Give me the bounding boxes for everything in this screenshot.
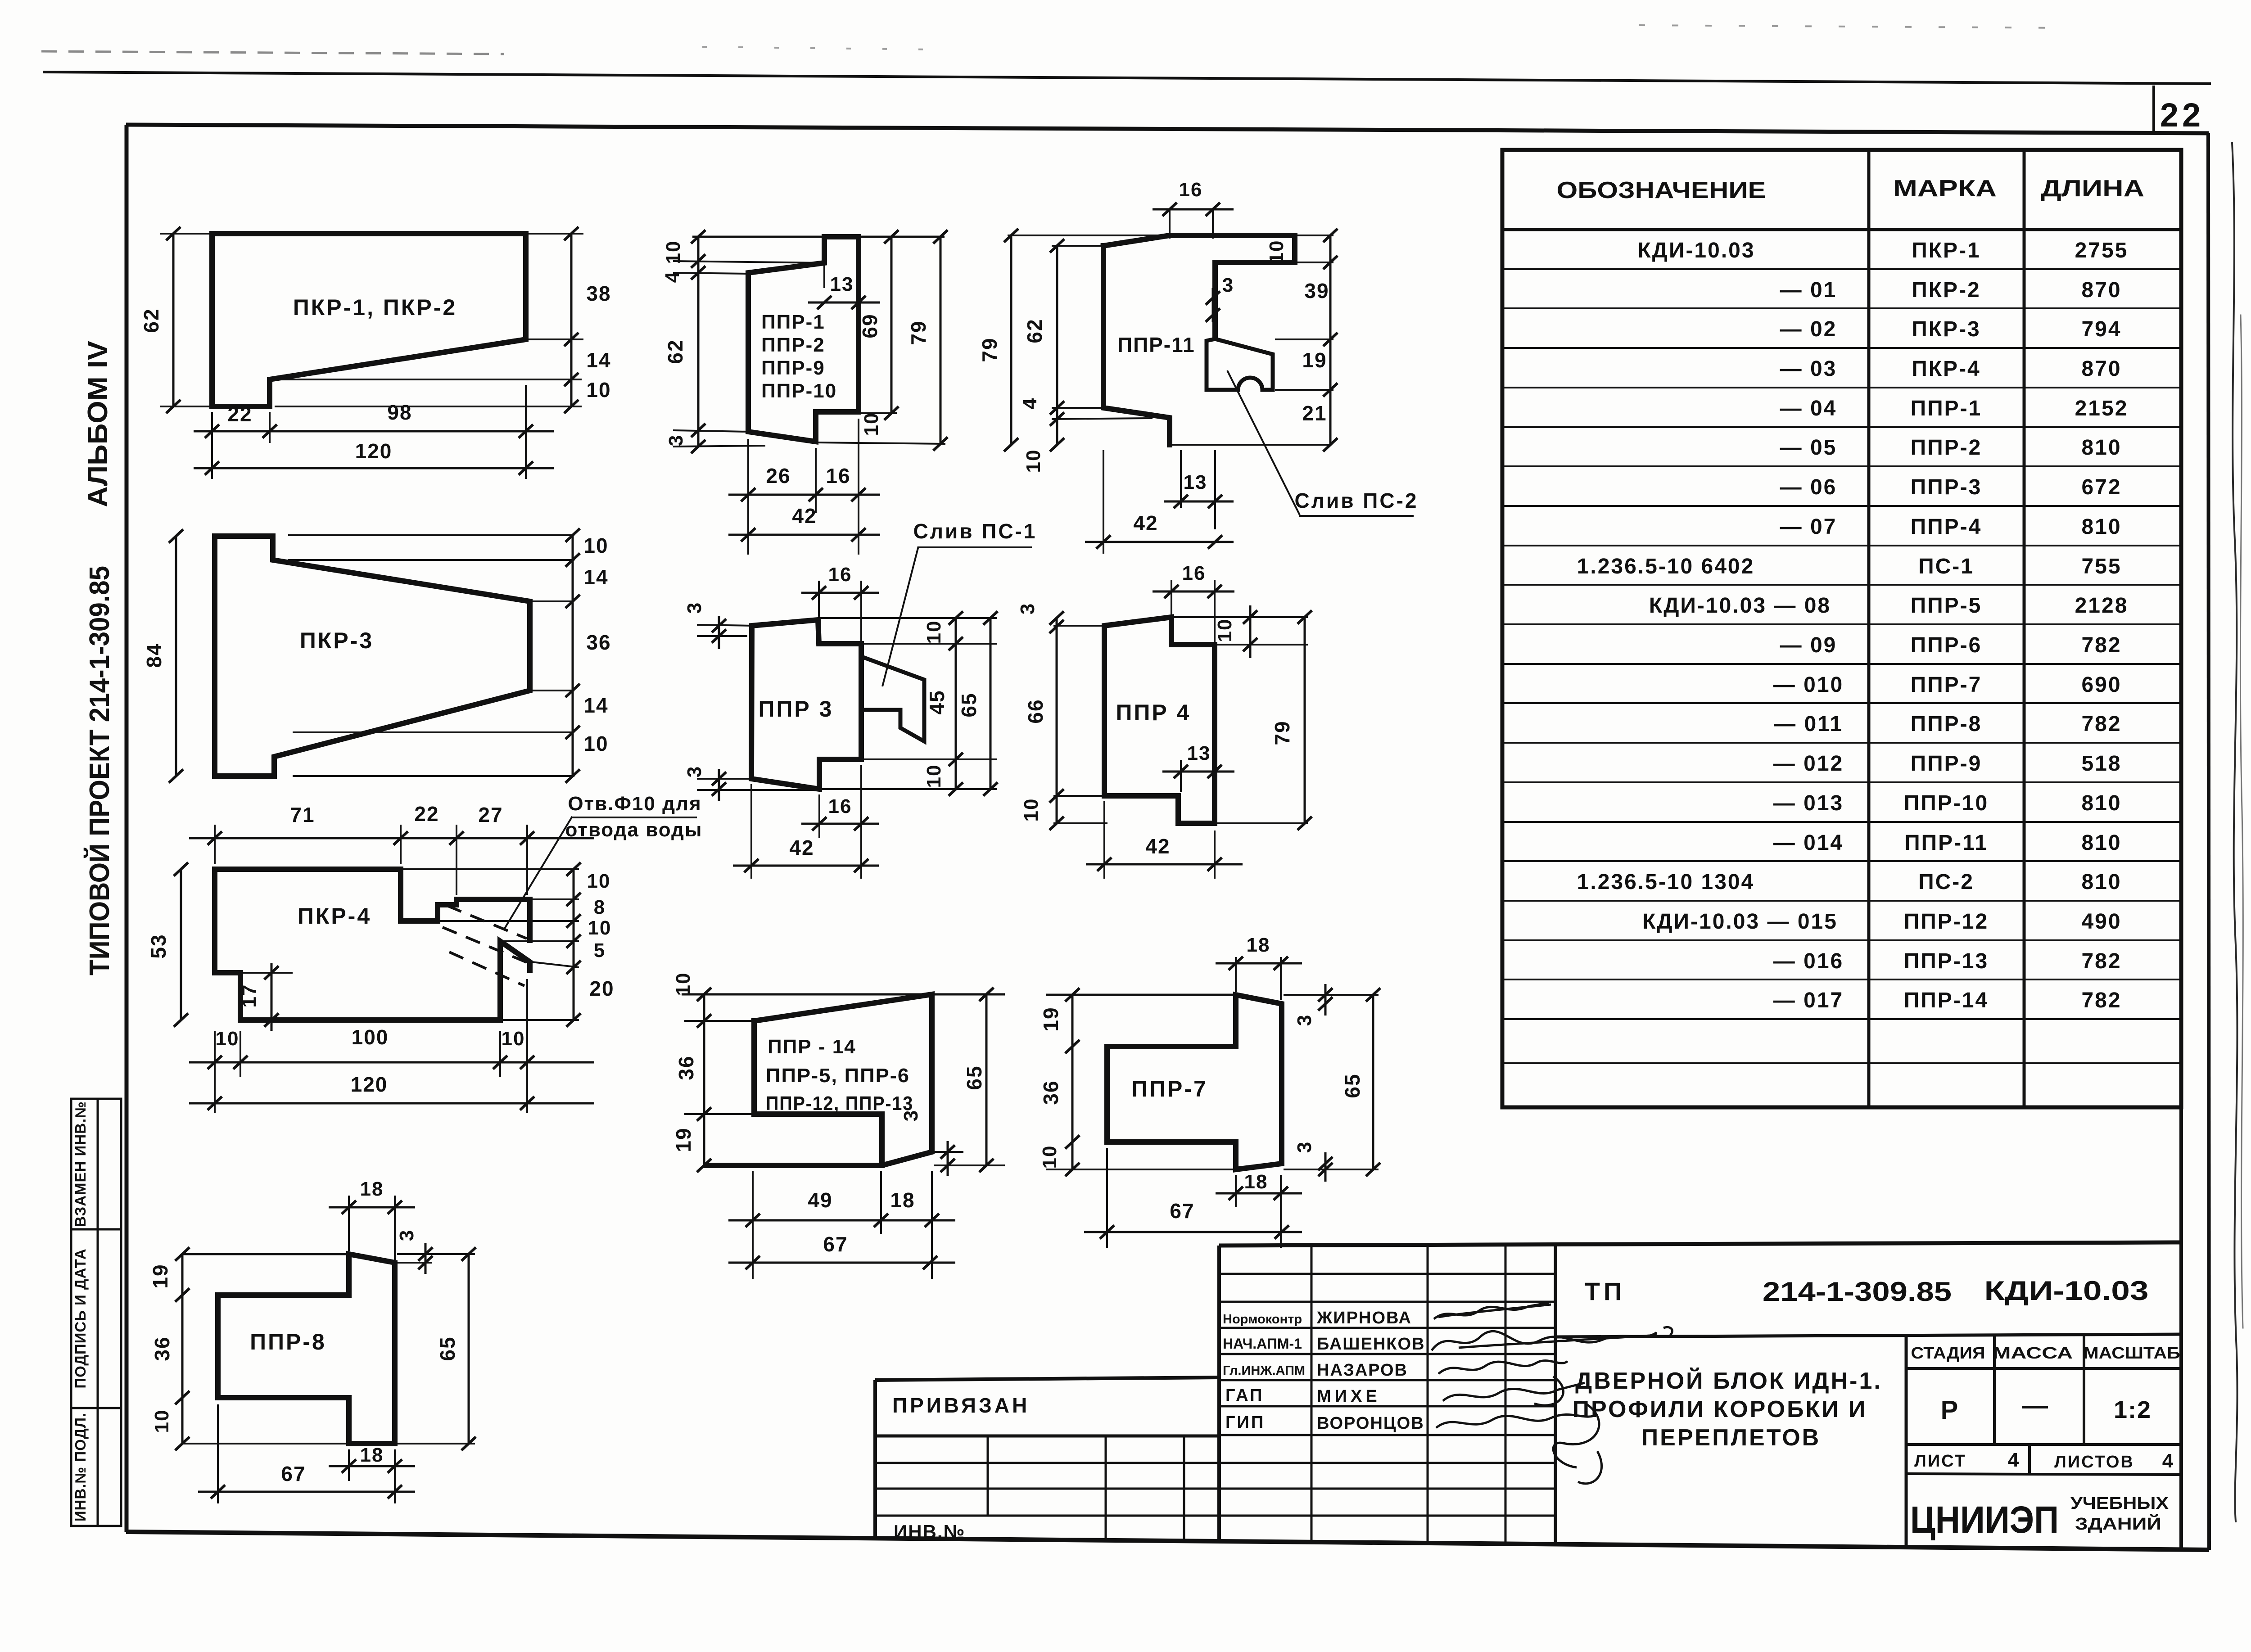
dimensions PPR-8: [348, 1196, 350, 1251]
svg-text:1:2: 1:2: [2114, 1396, 2152, 1423]
svg-text:4: 4: [2162, 1450, 2174, 1472]
svg-text:10: 10: [588, 917, 612, 939]
svg-text:13: 13: [1187, 742, 1211, 764]
svg-text:НАЧ.АПМ-1: НАЧ.АПМ-1: [1223, 1336, 1302, 1352]
svg-text:ППР-9: ППР-9: [1911, 752, 1982, 776]
svg-text:ППР-4: ППР-4: [1911, 515, 1982, 539]
svg-text:10: 10: [1022, 449, 1044, 473]
svg-text:16: 16: [826, 464, 850, 487]
svg-text:ППР-7: ППР-7: [1911, 673, 1982, 697]
svg-text:26: 26: [766, 464, 791, 487]
dimensions PPR-4: [1171, 580, 1172, 614]
svg-text:10: 10: [1214, 618, 1236, 642]
svg-text:49: 49: [808, 1188, 832, 1212]
svg-text:ПЕРЕПЛЕТОВ: ПЕРЕПЛЕТОВ: [1641, 1425, 1821, 1451]
svg-text:ВЗАМЕН ИНВ.№: ВЗАМЕН ИНВ.№: [72, 1101, 89, 1227]
svg-text:120: 120: [351, 1073, 388, 1096]
svg-text:ППР-10: ППР-10: [1904, 791, 1989, 815]
svg-text:794: 794: [2081, 317, 2121, 341]
title block: [1219, 1107, 2181, 1549]
svg-text:13: 13: [830, 273, 854, 295]
svg-text:62: 62: [140, 308, 163, 333]
svg-text:ПРИВЯЗАН: ПРИВЯЗАН: [892, 1394, 1030, 1417]
svg-text:Нормоконтр: Нормоконтр: [1223, 1312, 1302, 1327]
svg-text:ИНВ.№ ПОДЛ.: ИНВ.№ ПОДЛ.: [72, 1413, 89, 1521]
svg-text:10: 10: [1020, 798, 1042, 822]
svg-text:ТИПОВОЙ ПРОЕКТ 214-1-309.85: ТИПОВОЙ ПРОЕКТ 214-1-309.85: [84, 566, 115, 975]
svg-text:ЗДАНИЙ: ЗДАНИЙ: [2075, 1513, 2161, 1534]
svg-text:42: 42: [792, 504, 817, 528]
svg-text:870: 870: [2081, 278, 2121, 302]
svg-text:84: 84: [142, 643, 166, 668]
svg-text:67: 67: [281, 1462, 306, 1485]
svg-text:79: 79: [1270, 720, 1294, 745]
svg-text:10: 10: [923, 620, 945, 644]
svg-text:36: 36: [1039, 1080, 1062, 1105]
svg-text:214-1-309.85: 214-1-309.85: [1763, 1277, 1952, 1307]
svg-text:ПОДПИСЬ И ДАТА: ПОДПИСЬ И ДАТА: [72, 1248, 89, 1388]
svg-text:36: 36: [150, 1336, 174, 1361]
svg-text:ПКР-3: ПКР-3: [300, 628, 374, 653]
svg-text:36: 36: [674, 1055, 698, 1080]
svg-text:ППР 4: ППР 4: [1116, 700, 1191, 725]
svg-text:ПКР-3: ПКР-3: [1912, 317, 1981, 341]
dimensions PKR-1: [160, 233, 210, 235]
svg-text:10: 10: [923, 764, 945, 788]
svg-text:ОБОЗНАЧЕНИЕ: ОБОЗНАЧЕНИЕ: [1557, 177, 1766, 203]
svg-text:1.236.5-10 6402: 1.236.5-10 6402: [1577, 555, 1755, 578]
dimensions PPR-7: [1235, 957, 1237, 992]
svg-text:ППР-1: ППР-1: [761, 311, 825, 333]
svg-text:Слив ПС-1: Слив ПС-1: [913, 519, 1037, 543]
svg-text:10: 10: [860, 412, 882, 436]
svg-text:38: 38: [586, 282, 611, 305]
svg-text:10: 10: [216, 1028, 240, 1050]
svg-text:ППР-5: ППР-5: [1911, 594, 1982, 618]
svg-text:—: —: [2022, 1391, 2048, 1420]
dimensions PKR-3: [288, 534, 574, 536]
svg-text:782: 782: [2081, 949, 2121, 973]
svg-text:ПС-2: ПС-2: [1918, 870, 1974, 894]
svg-text:22: 22: [414, 802, 439, 826]
svg-text:17: 17: [238, 984, 260, 1008]
svg-text:МАСШТАБ: МАСШТАБ: [2084, 1344, 2180, 1362]
svg-text:ЦНИИЭП: ЦНИИЭП: [1910, 1499, 2059, 1541]
svg-text:19: 19: [1039, 1007, 1062, 1031]
svg-text:ППР-11: ППР-11: [1904, 831, 1988, 855]
svg-text:98: 98: [387, 401, 412, 424]
parts table: [1502, 150, 2181, 1107]
svg-text:— 013: — 013: [1773, 791, 1844, 815]
svg-text:ППР-7: ППР-7: [1131, 1076, 1208, 1101]
svg-text:3: 3: [396, 1229, 418, 1241]
svg-text:МАРКА: МАРКА: [1893, 176, 1997, 202]
svg-text:14: 14: [583, 694, 608, 717]
svg-text:672: 672: [2081, 475, 2121, 499]
svg-text:УЧЕБНЫХ: УЧЕБНЫХ: [2070, 1494, 2169, 1513]
svg-text:13: 13: [1184, 471, 1207, 493]
svg-text:42: 42: [789, 836, 814, 859]
svg-text:БАШЕНКОВ: БАШЕНКОВ: [1317, 1335, 1425, 1354]
privyazan box: [875, 1377, 1219, 1541]
svg-text:ДЛИНА: ДЛИНА: [2041, 176, 2144, 202]
svg-text:— 016: — 016: [1773, 949, 1844, 973]
svg-text:ППР-8: ППР-8: [250, 1329, 326, 1354]
svg-text:ППР-3: ППР-3: [1911, 475, 1982, 499]
dimensions PKR-4: [214, 825, 216, 864]
svg-text:Отв.Ф10 для: Отв.Ф10 для: [568, 793, 701, 815]
svg-text:10: 10: [502, 1028, 525, 1050]
svg-text:62: 62: [664, 339, 687, 364]
svg-text:10: 10: [672, 972, 694, 996]
svg-text:Гл.ИНЖ.АПМ: Гл.ИНЖ.АПМ: [1223, 1363, 1305, 1378]
svg-text:3: 3: [1293, 1014, 1315, 1026]
svg-text:3: 3: [900, 1110, 922, 1121]
svg-text:19: 19: [1302, 348, 1327, 372]
profile PPR-14/PPR-5/PPR-6/PPR-12/PPR-13 cross-section: [706, 994, 932, 1165]
svg-text:2128: 2128: [2075, 594, 2129, 618]
svg-text:3: 3: [1222, 274, 1234, 296]
svg-text:ЛИСТОВ: ЛИСТОВ: [2054, 1453, 2134, 1471]
svg-text:65: 65: [1341, 1073, 1364, 1098]
svg-text:КДИ-10.03: КДИ-10.03: [1984, 1276, 2149, 1306]
svg-text:ТП: ТП: [1585, 1277, 1625, 1305]
svg-text:36: 36: [586, 631, 611, 654]
svg-text:27: 27: [478, 803, 503, 826]
svg-text:ППР-9: ППР-9: [761, 357, 825, 379]
svg-text:4: 4: [661, 271, 683, 283]
svg-text:— 05: — 05: [1780, 436, 1837, 460]
svg-text:42: 42: [1133, 511, 1158, 535]
svg-text:810: 810: [2081, 791, 2121, 815]
svg-text:— 014: — 014: [1773, 831, 1844, 855]
svg-text:— 017: — 017: [1773, 988, 1844, 1012]
svg-text:10: 10: [583, 534, 608, 557]
profile PKR-1/PKR-2 cross-section: [212, 234, 526, 406]
svg-text:— 011: — 011: [1774, 712, 1843, 736]
svg-text:ППР 3: ППР 3: [759, 696, 834, 722]
svg-text:18: 18: [890, 1188, 915, 1212]
svg-text:870: 870: [2081, 357, 2121, 381]
svg-text:ПКР-2: ПКР-2: [1912, 278, 1981, 302]
svg-text:отвода воды: отвода воды: [565, 819, 703, 841]
svg-text:ПКР-4: ПКР-4: [1912, 357, 1981, 381]
svg-text:10: 10: [587, 870, 611, 892]
svg-text:18: 18: [360, 1444, 384, 1466]
svg-text:782: 782: [2081, 988, 2121, 1012]
dimensions PPR-11: [1170, 444, 1330, 446]
svg-text:810: 810: [2081, 831, 2121, 855]
svg-text:— 01: — 01: [1780, 278, 1837, 302]
svg-text:— 06: — 06: [1780, 475, 1837, 499]
svg-text:518: 518: [2081, 752, 2121, 776]
svg-text:ДВЕРНОЙ БЛОК ИДН-1.: ДВЕРНОЙ БЛОК ИДН-1.: [1575, 1368, 1882, 1394]
svg-text:ППР-11: ППР-11: [1117, 333, 1195, 357]
svg-text:79: 79: [978, 337, 1001, 362]
svg-text:3: 3: [1017, 603, 1039, 614]
svg-text:— 09: — 09: [1780, 633, 1837, 657]
svg-text:— 03: — 03: [1780, 357, 1837, 381]
svg-text:3: 3: [683, 602, 705, 614]
svg-text:ППР-12: ППР-12: [1904, 910, 1989, 934]
dimensions PPR-3: [818, 581, 820, 617]
svg-text:782: 782: [2081, 712, 2121, 736]
svg-text:810: 810: [2081, 515, 2121, 539]
svg-text:690: 690: [2081, 673, 2121, 697]
svg-text:120: 120: [355, 439, 393, 463]
dimensions PPR-1 group: [692, 236, 945, 238]
profile PPR-4 cross-section: [1104, 617, 1215, 823]
svg-text:10: 10: [1266, 240, 1288, 264]
svg-text:2152: 2152: [2075, 397, 2129, 420]
svg-text:— 010: — 010: [1773, 673, 1844, 697]
svg-text:5: 5: [594, 939, 606, 961]
svg-text:67: 67: [823, 1232, 848, 1256]
svg-text:10: 10: [586, 378, 611, 402]
svg-text:— 012: — 012: [1773, 752, 1844, 776]
svg-text:ВОРОНЦОВ: ВОРОНЦОВ: [1317, 1414, 1424, 1433]
svg-text:КДИ-10.03: КДИ-10.03: [1637, 239, 1755, 262]
svg-text:16: 16: [1182, 562, 1206, 584]
svg-text:ЛИСТ: ЛИСТ: [1914, 1452, 1966, 1471]
svg-text:— 04: — 04: [1780, 397, 1837, 420]
profile PPR-1/PPR-2/PPR-9/PPR-10 cross-section: [748, 237, 859, 442]
svg-text:18: 18: [1247, 934, 1270, 956]
drip strip PS-1 in place: [861, 657, 924, 741]
svg-text:490: 490: [2081, 910, 2121, 934]
svg-text:65: 65: [436, 1336, 459, 1361]
svg-text:ПКР-4: ПКР-4: [298, 903, 371, 929]
svg-text:16: 16: [828, 795, 852, 817]
svg-text:4: 4: [1019, 397, 1041, 409]
svg-text:810: 810: [2081, 436, 2121, 460]
svg-text:62: 62: [1023, 318, 1046, 343]
svg-text:10: 10: [151, 1409, 173, 1433]
svg-text:— 02: — 02: [1780, 317, 1837, 341]
svg-text:ППР-12, ППР-13: ППР-12, ППР-13: [766, 1092, 913, 1115]
svg-text:2755: 2755: [2075, 239, 2129, 262]
svg-text:65: 65: [963, 1065, 986, 1090]
svg-text:65: 65: [957, 692, 981, 717]
svg-text:67: 67: [1170, 1199, 1194, 1223]
svg-text:39: 39: [1304, 279, 1329, 302]
svg-text:19: 19: [672, 1127, 695, 1152]
svg-text:79: 79: [907, 320, 930, 345]
svg-text:1.236.5-10 1304: 1.236.5-10 1304: [1577, 870, 1755, 894]
svg-text:3: 3: [683, 766, 705, 777]
svg-text:Слив ПС-2: Слив ПС-2: [1295, 489, 1419, 512]
svg-text:3: 3: [1293, 1141, 1315, 1153]
svg-text:100: 100: [352, 1025, 389, 1049]
svg-text:782: 782: [2081, 633, 2121, 657]
profile PKR-4 cross-section: [215, 869, 530, 940]
svg-text:18: 18: [360, 1178, 384, 1200]
svg-text:ППР-14: ППР-14: [1904, 988, 1989, 1012]
profile PPR-3 cross-section: [751, 620, 861, 789]
svg-text:71: 71: [290, 803, 315, 826]
svg-text:45: 45: [925, 690, 949, 714]
svg-text:ПКР-1: ПКР-1: [1912, 239, 1981, 262]
svg-text:755: 755: [2081, 555, 2121, 578]
svg-text:КДИ-10.03 — 015: КДИ-10.03 — 015: [1642, 910, 1838, 934]
svg-text:ППР-6: ППР-6: [1911, 633, 1982, 657]
drip strip PS-2 in place: [1207, 339, 1273, 390]
profile PPR-7 cross-section: [1107, 995, 1282, 1169]
drain slot dashed lines: [447, 906, 527, 939]
signatures: [1432, 1303, 1672, 1484]
svg-text:ППР-1: ППР-1: [1911, 397, 1982, 420]
svg-text:18: 18: [1244, 1171, 1268, 1193]
dimensions PPR-14 group: [682, 993, 1005, 996]
svg-text:АЛЬБОМ IV: АЛЬБОМ IV: [82, 341, 113, 507]
svg-text:— 07: — 07: [1780, 515, 1837, 539]
svg-text:ППР-13: ППР-13: [1904, 949, 1989, 973]
svg-text:ЖИРНОВА: ЖИРНОВА: [1316, 1309, 1412, 1327]
svg-text:4: 4: [2008, 1449, 2019, 1471]
svg-text:53: 53: [147, 934, 170, 958]
svg-text:810: 810: [2081, 870, 2121, 894]
svg-text:ИНВ.№: ИНВ.№: [894, 1521, 965, 1542]
svg-text:ППР-10: ППР-10: [761, 380, 837, 402]
svg-text:42: 42: [1145, 835, 1170, 858]
svg-text:МАССА: МАССА: [1993, 1344, 2073, 1362]
svg-text:16: 16: [828, 564, 852, 586]
svg-text:КДИ-10.03 — 08: КДИ-10.03 — 08: [1649, 594, 1831, 618]
svg-text:ППР-2: ППР-2: [1911, 436, 1982, 460]
svg-text:66: 66: [1024, 699, 1047, 723]
svg-text:3: 3: [665, 434, 687, 446]
svg-text:69: 69: [858, 313, 881, 338]
svg-text:22: 22: [227, 402, 252, 426]
svg-text:14: 14: [583, 565, 608, 589]
svg-text:20: 20: [589, 977, 614, 1000]
svg-text:8: 8: [594, 896, 606, 918]
svg-text:21: 21: [1302, 402, 1327, 425]
svg-text:ППР - 14: ППР - 14: [768, 1036, 856, 1058]
profile PPR-8 cross-section: [218, 1254, 395, 1444]
svg-text:22: 22: [2160, 96, 2204, 134]
svg-text:ПС-1: ПС-1: [1918, 555, 1974, 578]
svg-text:10: 10: [583, 732, 608, 755]
svg-text:МИХЕ: МИХЕ: [1317, 1387, 1381, 1406]
svg-text:ГАП: ГАП: [1225, 1386, 1264, 1405]
svg-text:10: 10: [662, 240, 684, 264]
svg-text:14: 14: [586, 348, 611, 372]
svg-text:16: 16: [1179, 179, 1203, 201]
svg-text:19: 19: [149, 1264, 172, 1288]
svg-text:ППР-8: ППР-8: [1911, 712, 1982, 736]
svg-text:ПКР-1, ПКР-2: ПКР-1, ПКР-2: [293, 295, 457, 320]
profile PKR-3 cross-section: [215, 536, 530, 776]
svg-text:Р: Р: [1941, 1395, 1958, 1425]
svg-text:10: 10: [1039, 1145, 1061, 1169]
svg-text:ПРОФИЛИ КОРОБКИ И: ПРОФИЛИ КОРОБКИ И: [1573, 1396, 1867, 1422]
profile PPR-11 cross-section: [1103, 235, 1295, 337]
svg-text:ППР-2: ППР-2: [761, 334, 825, 356]
svg-text:НАЗАРОВ: НАЗАРОВ: [1317, 1361, 1408, 1380]
svg-text:СТАДИЯ: СТАДИЯ: [1911, 1344, 1985, 1362]
svg-text:ГИП: ГИП: [1225, 1413, 1265, 1432]
svg-text:ППР-5, ППР-6: ППР-5, ППР-6: [766, 1065, 910, 1087]
